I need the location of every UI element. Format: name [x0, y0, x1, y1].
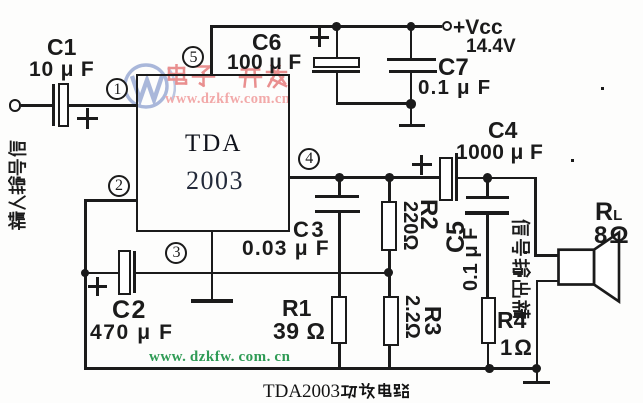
- capacitor C7 plate 1: [387, 58, 436, 61]
- wire speaker top vertical: [534, 177, 537, 257]
- junction R2: [385, 173, 394, 182]
- label R2: [416, 199, 440, 230]
- capacitor C2 plate 2: [133, 251, 136, 293]
- wire left vertical to rail: [84, 273, 87, 369]
- watermark green url: [149, 350, 290, 365]
- capacitor C6 plate 1: [313, 57, 360, 69]
- wire speaker bottom vertical: [536, 280, 539, 370]
- ground bar C7: [399, 124, 425, 128]
- pin number 4: [305, 151, 313, 167]
- label C3 value: [242, 238, 330, 259]
- label RL value: [594, 224, 631, 248]
- pin circle 2: [108, 175, 130, 197]
- terminal +Vcc: [442, 21, 452, 31]
- capacitor C2 plate 1: [118, 250, 131, 296]
- watermark blue logo W: [120, 60, 176, 114]
- wire C6 bottom lead: [336, 73, 339, 104]
- pin circle 1: [106, 78, 128, 100]
- pin circle 5: [182, 46, 204, 68]
- title 功放电路: [341, 383, 410, 400]
- IC text 2003: [186, 168, 244, 194]
- junction speaker rail: [532, 364, 541, 373]
- pin number 3: [173, 245, 181, 261]
- wire speaker bottom horizontal: [536, 280, 560, 283]
- wire pin5 vertical: [210, 26, 213, 75]
- label C6 value: [227, 52, 301, 73]
- pin circle 3: [165, 242, 187, 264]
- label R4: [497, 309, 526, 332]
- wire C5 to R4: [486, 213, 489, 298]
- label R4 value: [500, 337, 534, 359]
- plus sign C6: [310, 36, 329, 39]
- wire R4 bottom lead: [487, 344, 490, 371]
- wire R1 bottom lead: [338, 344, 341, 370]
- pin number 5: [190, 50, 198, 66]
- wire pin4 output: [289, 176, 441, 179]
- watermark red url: [165, 92, 290, 107]
- speck 3: [524, 251, 527, 254]
- capacitor C4 plate 1: [439, 157, 453, 201]
- speaker RL symbol: [556, 229, 622, 304]
- wire C6 to C7 bottom: [336, 102, 413, 105]
- pin circle 4: [298, 148, 320, 170]
- wire pin2 horizontal: [84, 199, 137, 202]
- label C7: [438, 56, 469, 80]
- junction C7 rail: [407, 22, 416, 31]
- junction C7 bottom: [406, 99, 415, 108]
- right vertical text 信号输出端: [511, 217, 531, 319]
- wire C2 left: [84, 272, 119, 275]
- capacitor C1 left plate: [52, 84, 55, 126]
- watermark red text 开发: [238, 64, 289, 89]
- resistor R1: [331, 296, 348, 345]
- junction C3: [335, 173, 344, 182]
- label RL: [595, 200, 622, 225]
- pin number 1: [114, 82, 122, 98]
- IC text TDA: [185, 131, 242, 156]
- junction C5: [483, 173, 492, 182]
- junction C6 rail: [332, 22, 341, 31]
- wire input to C1: [21, 104, 53, 107]
- wire R2 top lead: [388, 178, 391, 203]
- capacitor C6 plate 2: [312, 70, 360, 73]
- plus sign C4: [412, 163, 432, 166]
- wire C3 to R1: [338, 213, 341, 298]
- wire C1 to pin1: [69, 104, 138, 107]
- speck 2: [601, 87, 604, 90]
- junction R2 bottom: [384, 268, 393, 277]
- label C6: [252, 31, 281, 54]
- wire bottom rail: [84, 367, 538, 370]
- pin number 2: [115, 178, 123, 194]
- plus sign C1: [77, 117, 98, 120]
- left vertical text 信号输入端: [8, 140, 27, 230]
- wire C3 top lead: [338, 178, 341, 197]
- speck 1: [571, 159, 574, 162]
- capacitor C5 plate 1: [466, 196, 510, 199]
- title TDA2003: [263, 382, 340, 401]
- capacitor C3 plate 2: [315, 210, 361, 213]
- capacitor C3 plate 1: [315, 195, 359, 198]
- label +Vcc: [453, 17, 503, 38]
- label R3: [421, 306, 444, 335]
- resistor R4: [481, 297, 496, 345]
- label C4 value: [456, 142, 543, 163]
- label C1 value: [29, 59, 95, 80]
- wire top rail: [210, 25, 442, 28]
- label C2: [112, 298, 147, 323]
- wire C4 to speaker: [458, 177, 537, 180]
- capacitor C1 right plate: [58, 83, 69, 128]
- wire C7 top lead: [410, 26, 413, 60]
- resistor R3: [383, 296, 399, 346]
- watermark red text 电子: [164, 64, 216, 89]
- label R1 value: [273, 320, 325, 343]
- junction C2 left: [81, 269, 89, 277]
- wire C5 top lead: [486, 178, 489, 198]
- wire IC ground vertical: [211, 232, 214, 300]
- wire pin2 vertical down: [84, 199, 87, 274]
- wire pin3 long horizontal: [135, 272, 389, 275]
- label C2 value: [90, 322, 174, 343]
- wire C6 top lead: [336, 26, 339, 58]
- capacitor C4 plate 2: [455, 153, 458, 201]
- label R3 value: [402, 295, 422, 339]
- label C5 value: [461, 228, 481, 291]
- wire speaker top horizontal: [534, 254, 559, 257]
- label 14.4V: [466, 37, 516, 56]
- label C5: [444, 221, 469, 253]
- ground stub C7: [410, 104, 413, 125]
- label C7 value: [418, 78, 491, 99]
- op-amp IC U1 TDA2003 box: [136, 74, 290, 232]
- label R1: [282, 297, 311, 320]
- ground bar IC: [191, 299, 233, 303]
- wire R3 top lead: [388, 273, 391, 298]
- input terminal: [9, 99, 21, 111]
- ground bar bottom right: [523, 381, 550, 385]
- capacitor C7 plate 2: [389, 70, 437, 73]
- label C4: [488, 119, 517, 142]
- resistor R2: [381, 201, 398, 251]
- wire C7 bottom lead: [410, 73, 413, 104]
- label R2 value: [400, 201, 420, 250]
- label C3: [293, 219, 326, 241]
- plus sign C2: [88, 285, 107, 288]
- junction R4 rail: [485, 364, 494, 373]
- label C1: [47, 36, 76, 59]
- wire R2 bottom lead: [388, 250, 391, 274]
- wire R3 bottom lead: [388, 346, 391, 370]
- ground stub bottom right: [536, 368, 539, 382]
- capacitor C5 plate 2: [465, 211, 510, 214]
